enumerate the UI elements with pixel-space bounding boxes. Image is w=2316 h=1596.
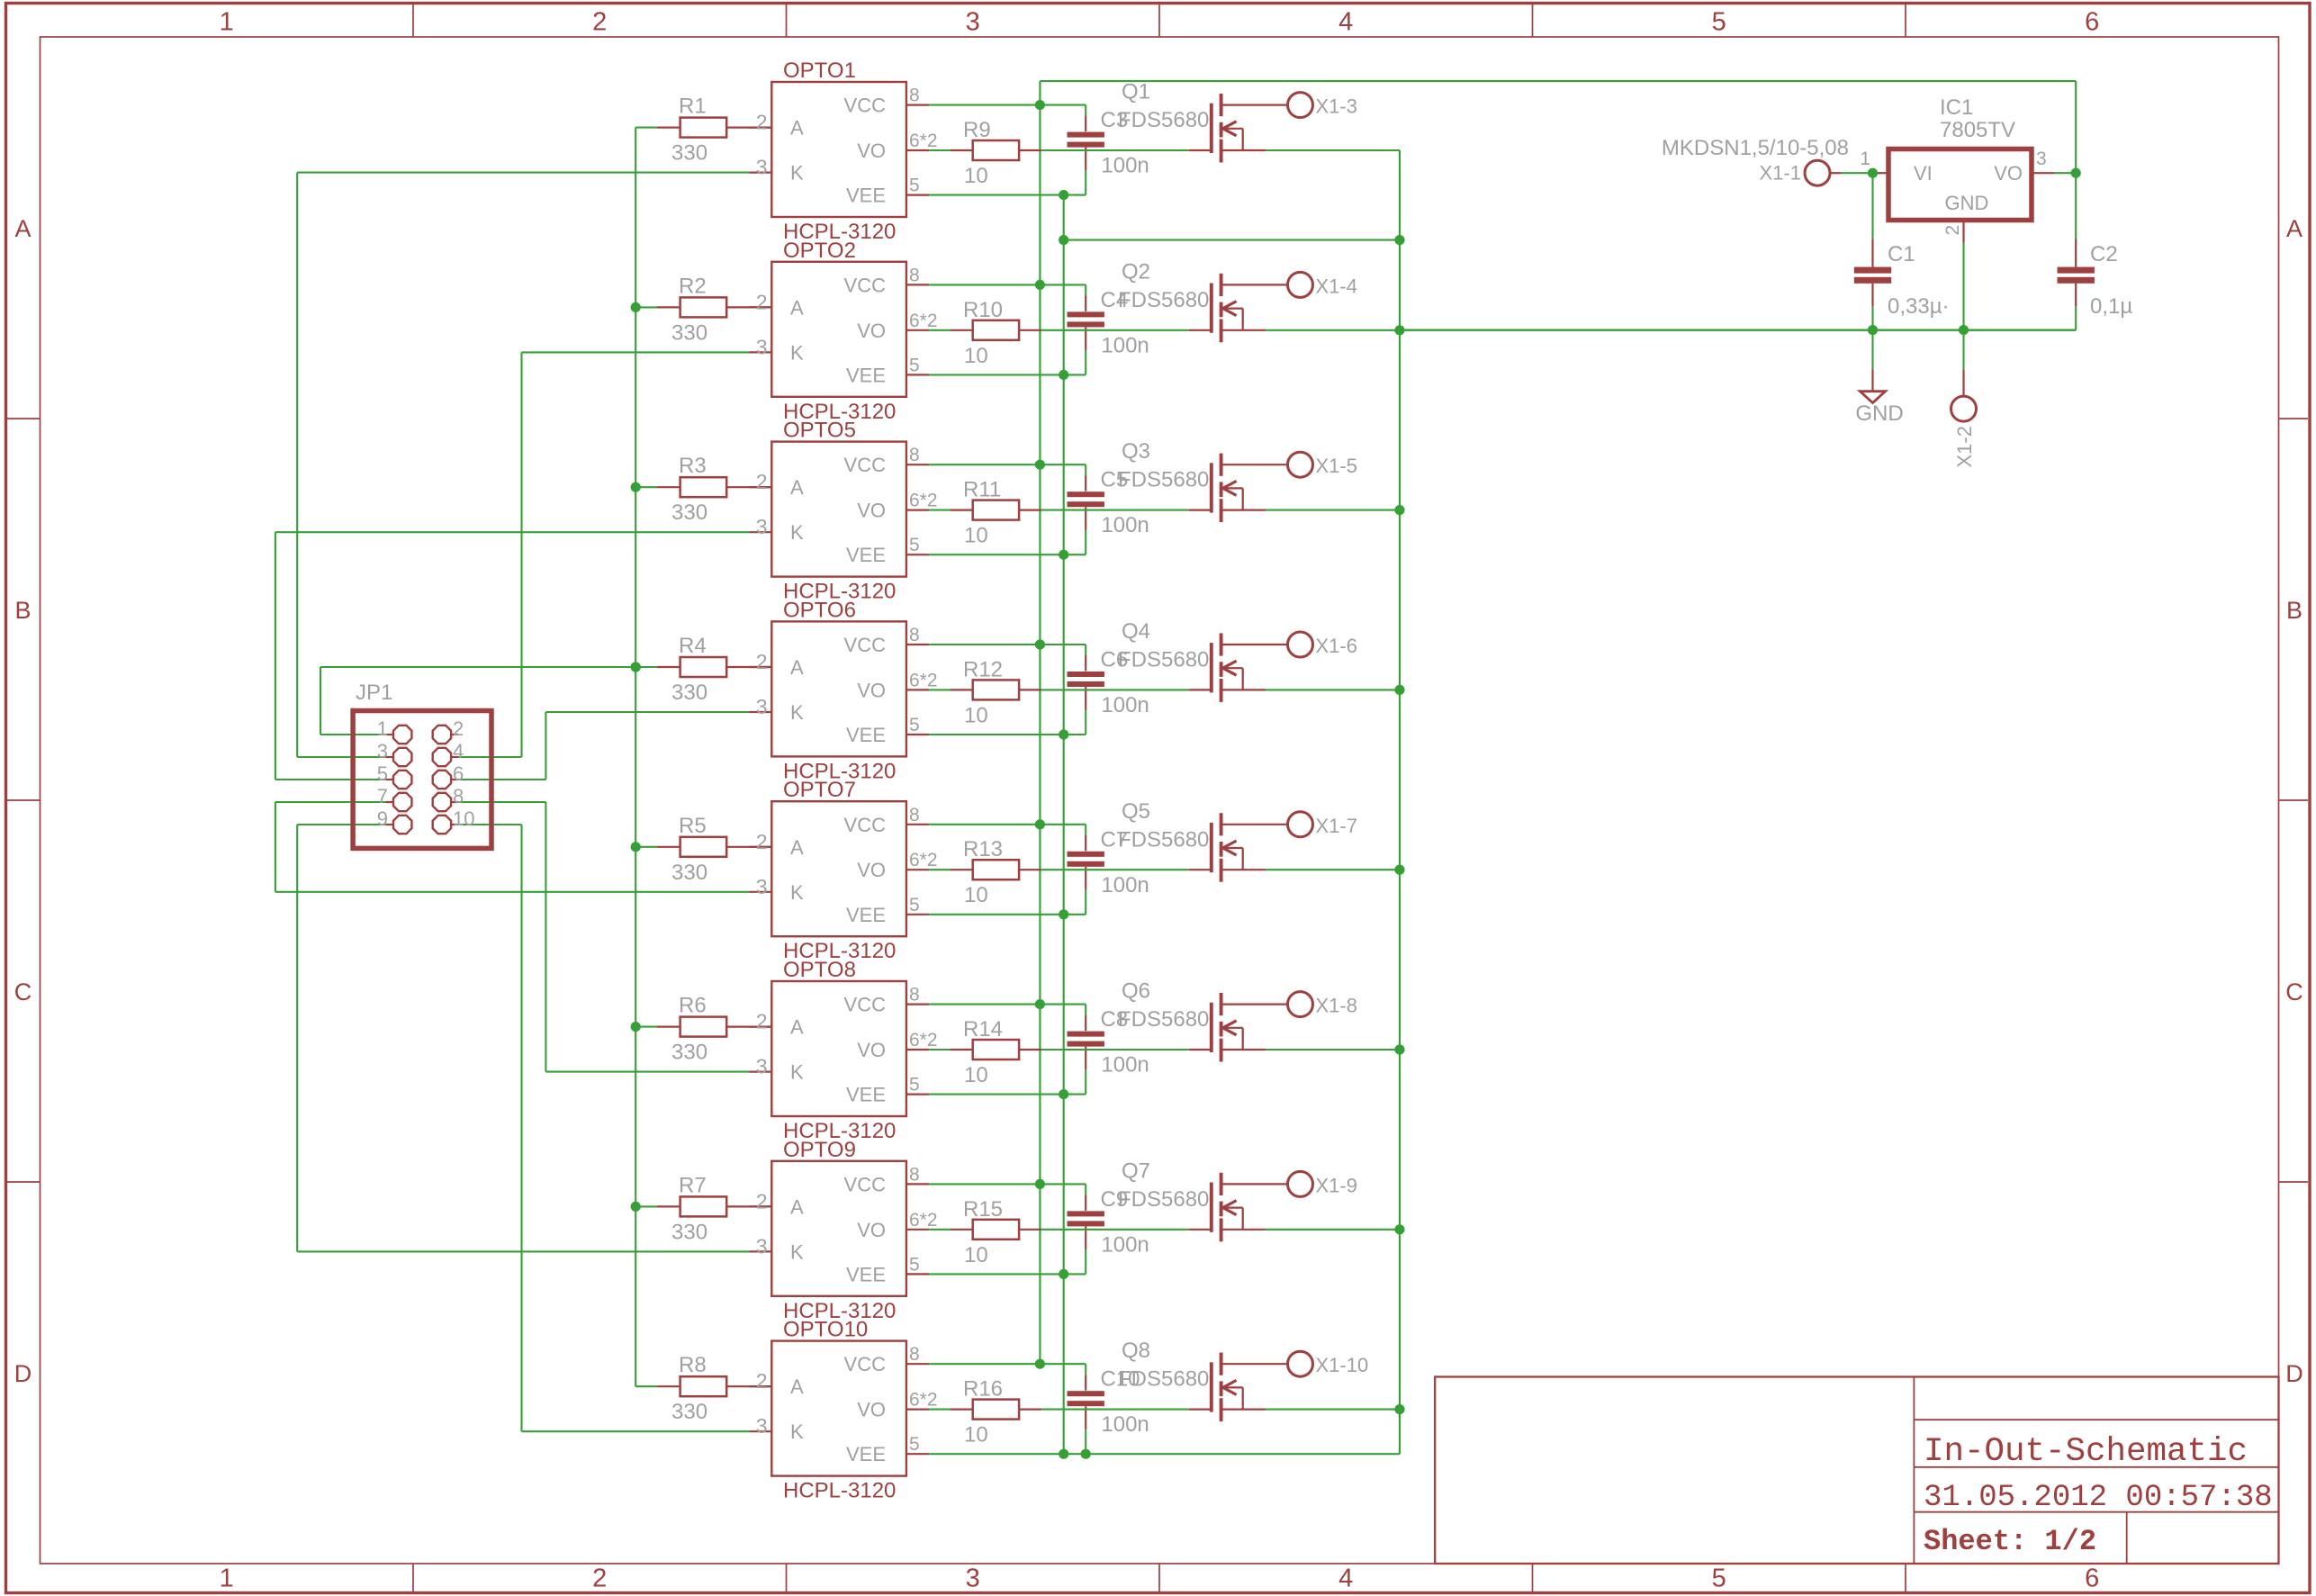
- resistor R14: [951, 1049, 973, 1050]
- wire OPTO2 K net horizontal: [522, 351, 750, 353]
- svg-text:A: A: [790, 1375, 804, 1398]
- resistor R12: [951, 689, 973, 690]
- svg-text:8: 8: [909, 1344, 920, 1365]
- svg-text:5: 5: [377, 762, 388, 785]
- svg-text:VO: VO: [857, 320, 886, 342]
- svg-text:X1-4: X1-4: [1316, 275, 1357, 297]
- svg-text:A: A: [790, 117, 804, 140]
- svg-text:3: 3: [756, 875, 768, 898]
- junction dot C10 at VEE row: [1081, 1449, 1091, 1459]
- svg-text:10: 10: [964, 164, 988, 188]
- svg-text:8: 8: [909, 265, 920, 285]
- svg-text:VO: VO: [857, 859, 886, 881]
- svg-text:A: A: [14, 215, 31, 242]
- svg-text:VCC: VCC: [844, 454, 887, 476]
- wire OPTO2 VCC to bus and C4: [929, 284, 1086, 285]
- svg-text:OPTO6: OPTO6: [783, 598, 856, 622]
- svg-text:R10: R10: [963, 298, 1003, 322]
- svg-text:1: 1: [1860, 149, 1870, 169]
- wire Q7 source to return bus: [1266, 1229, 1400, 1231]
- OPTO6 pin 6 stub: [906, 689, 929, 690]
- wire A-bus tap to R1: [635, 127, 657, 129]
- svg-text:OPTO7: OPTO7: [783, 778, 856, 802]
- ground symbol GND: [1860, 392, 1885, 403]
- capacitor C1 0,33u: [1871, 173, 1873, 239]
- OPTO10 pin 8 stub: [906, 1363, 929, 1365]
- svg-text:8: 8: [909, 625, 920, 645]
- wire OPTO10 VEE row: [929, 1453, 1400, 1455]
- svg-text:VEE: VEE: [846, 364, 886, 386]
- transistor Q7 FDS5680: [1210, 1183, 1213, 1232]
- wire +5V top rail horizontal: [1040, 80, 2076, 82]
- OPTO8 pin 2 stub: [749, 1025, 771, 1027]
- svg-text:3: 3: [2036, 149, 2047, 169]
- svg-text:330: 330: [671, 1220, 707, 1244]
- svg-text:VCC: VCC: [844, 994, 887, 1016]
- JP1 pad 5: [386, 779, 393, 780]
- resistor R5: [657, 846, 680, 848]
- wire OPTO5 K net horizontal: [275, 531, 749, 533]
- JP1 pad 4: [451, 756, 458, 758]
- svg-text:R16: R16: [963, 1377, 1003, 1402]
- wire GND link row1: [1064, 239, 1400, 241]
- voltage regulator IC1 7805TV: [1888, 149, 2032, 221]
- wire +5V A-bus vertical: [635, 128, 636, 1387]
- svg-text:OPTO10: OPTO10: [783, 1318, 868, 1342]
- resistor R4: [657, 666, 680, 668]
- OPTO6 pin 5 stub: [906, 734, 929, 735]
- OPTO5 pin 5 stub: [906, 554, 929, 555]
- svg-text:X1-5: X1-5: [1316, 455, 1357, 477]
- svg-text:A: A: [790, 1195, 804, 1218]
- wire JP1 pin9 to OPTO9 K: [297, 824, 386, 825]
- wire OPTO9 VCC to bus and C9: [929, 1183, 1086, 1185]
- connector pad X1-5: [1288, 452, 1313, 477]
- wire Q2 source to return bus: [1266, 329, 2076, 331]
- svg-text:A: A: [2286, 215, 2302, 242]
- svg-text:10: 10: [964, 703, 988, 727]
- junction dots A-bus: [631, 302, 641, 312]
- OPTO5 pin 3 stub: [749, 531, 771, 533]
- wire OPTO5 VEE row: [929, 554, 1086, 555]
- wire OPTO5 VO to R11: [929, 509, 951, 511]
- wire OPTO7 VO to R13: [929, 869, 951, 870]
- resistor R16: [951, 1408, 973, 1410]
- svg-text:R6: R6: [679, 994, 707, 1018]
- OPTO1 pin 2 stub: [749, 127, 771, 129]
- svg-text:100n: 100n: [1101, 513, 1149, 537]
- svg-text:8: 8: [909, 805, 920, 825]
- svg-text:VEE: VEE: [846, 724, 886, 746]
- svg-text:A: A: [790, 836, 804, 859]
- svg-text:MKDSN1,5/10-5,08: MKDSN1,5/10-5,08: [1662, 136, 1849, 160]
- svg-text:330: 330: [671, 500, 707, 525]
- svg-text:VO: VO: [857, 1399, 886, 1421]
- svg-text:A: A: [790, 296, 804, 319]
- svg-text:VEE: VEE: [846, 904, 886, 926]
- svg-text:330: 330: [671, 861, 707, 885]
- svg-text:9: 9: [377, 807, 388, 830]
- svg-text:Q6: Q6: [1122, 979, 1150, 1004]
- title block row lines: [1914, 1419, 2278, 1420]
- IC1 pin 1 stub: [1874, 172, 1888, 174]
- wire IC1 GND to rail: [1962, 243, 1964, 330]
- optocoupler OPTO5 HCPL-3120: [771, 442, 906, 577]
- svg-text:OPTO9: OPTO9: [783, 1138, 856, 1162]
- wire OPTO10 K net horizontal: [522, 1430, 750, 1432]
- svg-text:330: 330: [671, 141, 707, 166]
- wire OPTO9 VO to R15: [929, 1229, 951, 1231]
- wire R10 to Q2 gate: [1041, 329, 1189, 331]
- svg-text:2: 2: [756, 111, 768, 134]
- svg-text:FDS5680: FDS5680: [1118, 108, 1209, 132]
- svg-text:2: 2: [592, 1564, 607, 1593]
- svg-text:A: A: [790, 1016, 804, 1039]
- OPTO9 pin 5 stub: [906, 1273, 929, 1275]
- IC1 pin 3 stub: [2032, 172, 2054, 174]
- svg-text:0,1µ: 0,1µ: [2090, 294, 2132, 319]
- svg-text:2: 2: [756, 650, 768, 673]
- frame row ticks: [7, 418, 41, 419]
- wire R15 to Q7 gate: [1041, 1229, 1189, 1231]
- svg-text:R3: R3: [679, 454, 707, 478]
- svg-text:5: 5: [909, 715, 920, 735]
- svg-text:5: 5: [909, 535, 920, 555]
- wire +5V rail drop to VO node: [2075, 81, 2077, 173]
- title block field divider vertical: [1913, 1377, 1915, 1564]
- JP1 pad 2: [451, 734, 458, 735]
- connector pad X1-6: [1288, 632, 1313, 657]
- svg-text:VO: VO: [857, 140, 886, 162]
- svg-text:FDS5680: FDS5680: [1118, 1367, 1209, 1392]
- svg-text:VO: VO: [857, 1219, 886, 1241]
- title block sheet cell divider: [2126, 1512, 2128, 1564]
- svg-text:10: 10: [964, 1423, 988, 1447]
- svg-text:C2: C2: [2090, 242, 2118, 266]
- connector pad X1-2: [1951, 396, 1977, 421]
- OPTO10 pin 5 stub: [906, 1453, 929, 1455]
- svg-text:4: 4: [453, 740, 464, 762]
- svg-text:Sheet: 1/2: Sheet: 1/2: [1924, 1525, 2096, 1558]
- svg-text:A: A: [790, 656, 804, 679]
- svg-text:D: D: [14, 1360, 32, 1387]
- svg-text:VCC: VCC: [844, 634, 887, 656]
- svg-text:FDS5680: FDS5680: [1118, 1007, 1209, 1032]
- wire OPTO8 K net horizontal: [545, 1071, 749, 1073]
- svg-text:6: 6: [2085, 1564, 2099, 1593]
- connector pad X1-8: [1288, 992, 1313, 1017]
- OPTO7 pin 5 stub: [906, 914, 929, 915]
- svg-text:2: 2: [756, 470, 768, 493]
- svg-text:3: 3: [377, 740, 388, 762]
- svg-text:100n: 100n: [1101, 1053, 1149, 1078]
- resistor R15: [951, 1229, 973, 1231]
- svg-text:2: 2: [1942, 225, 1963, 236]
- svg-text:R5: R5: [679, 814, 707, 838]
- OPTO2 pin 5 stub: [906, 374, 929, 375]
- optocoupler OPTO9 HCPL-3120: [771, 1161, 906, 1296]
- connector pad X1-4: [1288, 272, 1313, 297]
- wire OPTO9 VEE row: [929, 1273, 1086, 1275]
- svg-text:1: 1: [220, 8, 234, 37]
- svg-text:3: 3: [756, 695, 768, 718]
- svg-text:6*2: 6*2: [909, 311, 938, 331]
- resistor R9: [951, 149, 973, 151]
- optocoupler OPTO1 HCPL-3120: [771, 82, 906, 217]
- svg-text:FDS5680: FDS5680: [1118, 1187, 1209, 1212]
- wire OPTO10 VO to R16: [929, 1409, 951, 1411]
- svg-text:R15: R15: [963, 1197, 1003, 1222]
- OPTO9 pin 6 stub: [906, 1229, 929, 1231]
- capacitor C10 100n: [1085, 1364, 1086, 1375]
- OPTO2 pin 3 stub: [749, 351, 771, 353]
- wire A-bus tap to R6: [635, 1026, 657, 1028]
- transistor Q6 FDS5680: [1210, 1003, 1213, 1052]
- svg-text:OPTO1: OPTO1: [783, 59, 856, 83]
- svg-text:5: 5: [1712, 1564, 1726, 1593]
- wire OPTO7 VCC to bus and C7: [929, 824, 1086, 825]
- OPTO5 pin 6 stub: [906, 509, 929, 510]
- wire OPTO6 VO to R12: [929, 689, 951, 690]
- transistor Q4 FDS5680: [1210, 643, 1213, 692]
- resistor R1: [657, 127, 680, 129]
- svg-text:VCC: VCC: [844, 274, 887, 296]
- wire Q3 source to return bus: [1266, 509, 1400, 511]
- resistor R11: [951, 509, 973, 510]
- OPTO1 pin 3 stub: [749, 172, 771, 174]
- OPTO7 pin 8 stub: [906, 824, 929, 825]
- svg-text:4: 4: [1338, 8, 1353, 37]
- junction dots GND bus: [1059, 190, 1068, 200]
- svg-text:VO: VO: [857, 500, 886, 522]
- svg-text:IC1: IC1: [1940, 95, 1973, 120]
- resistor R8: [657, 1385, 680, 1387]
- svg-text:In-Out-Schematic: In-Out-Schematic: [1924, 1433, 2248, 1471]
- svg-text:8: 8: [909, 445, 920, 465]
- svg-text:6*2: 6*2: [909, 1210, 938, 1231]
- svg-text:VCC: VCC: [844, 1353, 887, 1375]
- svg-text:10: 10: [964, 344, 988, 368]
- OPTO2 pin 8 stub: [906, 284, 929, 285]
- svg-text:3: 3: [966, 8, 980, 37]
- wire OPTO8 VCC to bus and C8: [929, 1004, 1086, 1005]
- svg-text:Q2: Q2: [1122, 259, 1150, 284]
- svg-text:10: 10: [453, 807, 474, 830]
- svg-text:100n: 100n: [1101, 1412, 1149, 1437]
- svg-text:X1-2: X1-2: [1953, 426, 1976, 467]
- svg-text:2: 2: [756, 1189, 768, 1213]
- connector JP1: [353, 711, 491, 849]
- svg-text:VO: VO: [857, 1039, 886, 1061]
- svg-text:K: K: [790, 881, 804, 904]
- svg-text:8: 8: [909, 1164, 920, 1185]
- junction dots VCC bus: [1035, 100, 1045, 110]
- svg-text:K: K: [790, 1061, 804, 1084]
- wire OPTO7 K net horizontal: [275, 891, 749, 893]
- svg-text:FDS5680: FDS5680: [1118, 288, 1209, 312]
- svg-text:A: A: [790, 476, 804, 499]
- svg-text:Q4: Q4: [1122, 619, 1150, 644]
- wire OPTO1 K to JP1 pin3: [296, 173, 298, 757]
- wire X1-2 drop: [1962, 330, 1964, 370]
- OPTO8 pin 8 stub: [906, 1003, 929, 1005]
- wire R9 to Q1 gate: [1041, 149, 1189, 151]
- svg-text:K: K: [790, 1420, 804, 1443]
- svg-text:VCC: VCC: [844, 95, 887, 117]
- OPTO6 pin 3 stub: [749, 711, 771, 713]
- transistor Q5 FDS5680: [1210, 823, 1213, 872]
- OPTO7 pin 2 stub: [749, 846, 771, 848]
- wire OPTO2 VO to R10: [929, 329, 951, 331]
- wire OPTO1 VCC to bus and C3: [929, 104, 1086, 106]
- OPTO10 pin 2 stub: [749, 1385, 771, 1387]
- wire OPTO7 VEE row: [929, 914, 1086, 915]
- OPTO9 pin 2 stub: [749, 1205, 771, 1207]
- svg-text:VO: VO: [1994, 162, 2023, 185]
- transistor Q2 FDS5680: [1210, 284, 1213, 333]
- svg-text:R9: R9: [963, 118, 991, 142]
- wire R13 to Q5 gate: [1041, 869, 1189, 870]
- wire GND symbol drop: [1871, 330, 1873, 370]
- svg-text:1: 1: [220, 1564, 234, 1593]
- optocoupler OPTO10 HCPL-3120: [771, 1341, 906, 1476]
- svg-text:VI: VI: [1914, 162, 1933, 185]
- svg-text:10: 10: [964, 1243, 988, 1267]
- capacitor C2 0,1u: [2075, 173, 2077, 239]
- capacitor C6 100n: [1085, 645, 1086, 655]
- svg-text:X1-7: X1-7: [1316, 815, 1357, 837]
- connector pad X1-3: [1288, 93, 1313, 118]
- svg-text:HCPL-3120: HCPL-3120: [783, 1479, 896, 1503]
- svg-text:Q1: Q1: [1122, 80, 1150, 104]
- svg-text:330: 330: [671, 320, 707, 345]
- svg-text:5: 5: [909, 355, 920, 375]
- svg-text:GND: GND: [1855, 401, 1903, 426]
- svg-text:R4: R4: [679, 634, 707, 658]
- svg-text:D: D: [2285, 1360, 2303, 1387]
- OPTO8 pin 3 stub: [749, 1070, 771, 1072]
- wire A-bus tap to R7: [635, 1205, 657, 1207]
- svg-text:7: 7: [377, 785, 388, 807]
- svg-text:Q3: Q3: [1122, 439, 1150, 464]
- OPTO9 pin 3 stub: [749, 1250, 771, 1252]
- svg-text:1: 1: [377, 717, 388, 740]
- optocoupler OPTO6 HCPL-3120: [771, 621, 906, 756]
- svg-text:330: 330: [671, 1400, 707, 1424]
- resistor R7: [657, 1205, 680, 1207]
- svg-text:2: 2: [756, 1369, 768, 1393]
- svg-text:X1-10: X1-10: [1316, 1354, 1369, 1376]
- wire OPTO8 VEE row: [929, 1094, 1086, 1096]
- resistor R3: [657, 486, 680, 488]
- svg-text:330: 330: [671, 1041, 707, 1065]
- svg-text:100n: 100n: [1101, 333, 1149, 357]
- svg-text:VEE: VEE: [846, 1443, 886, 1465]
- transistor Q3 FDS5680: [1210, 463, 1213, 512]
- svg-text:5: 5: [909, 176, 920, 196]
- wire A-bus tap to R4: [635, 666, 657, 668]
- svg-text:8: 8: [909, 86, 920, 106]
- wire Q8 source to return bus: [1266, 1409, 1400, 1411]
- connector pad X1-7: [1288, 812, 1313, 837]
- connector pad X1-10: [1288, 1351, 1313, 1376]
- JP1 pad 10: [451, 824, 458, 825]
- wire OPTO1 VEE row: [929, 194, 1086, 196]
- OPTO10 pin 3 stub: [749, 1430, 771, 1432]
- svg-text:B: B: [14, 597, 31, 624]
- JP1 pad 3: [386, 756, 393, 758]
- svg-text:K: K: [790, 701, 804, 724]
- svg-text:VEE: VEE: [846, 1084, 886, 1106]
- svg-text:K: K: [790, 341, 804, 364]
- resistor R2: [657, 306, 680, 308]
- svg-text:VEE: VEE: [846, 544, 886, 566]
- frame column ticks: [412, 5, 414, 37]
- svg-text:3: 3: [756, 515, 768, 538]
- svg-text:6*2: 6*2: [909, 1030, 938, 1050]
- OPTO7 pin 6 stub: [906, 869, 929, 870]
- svg-text:6*2: 6*2: [909, 1390, 938, 1411]
- svg-text:X1-9: X1-9: [1316, 1174, 1357, 1196]
- wire A-bus tap to R8: [635, 1385, 657, 1387]
- wire A-bus tap to R3: [635, 486, 657, 488]
- svg-text:R11: R11: [963, 478, 1001, 502]
- wire OPTO6 VEE row: [929, 734, 1086, 735]
- svg-text:X1-6: X1-6: [1316, 635, 1357, 657]
- wire R11 to Q3 gate: [1041, 509, 1189, 511]
- svg-text:R13: R13: [963, 837, 1003, 861]
- svg-text:C: C: [14, 978, 32, 1005]
- svg-text:VCC: VCC: [844, 814, 887, 836]
- svg-text:6*2: 6*2: [909, 850, 938, 870]
- svg-text:VCC: VCC: [844, 1173, 887, 1195]
- wire JP1 pin10 to OPTO10 K: [458, 824, 522, 825]
- svg-text:R1: R1: [679, 95, 707, 119]
- wire JP1 pin7 to OPTO7 K: [275, 801, 386, 803]
- wire OPTO1 K net horizontal: [297, 172, 749, 174]
- svg-text:FDS5680: FDS5680: [1118, 827, 1209, 852]
- svg-text:2: 2: [592, 8, 607, 37]
- svg-text:OPTO5: OPTO5: [783, 419, 856, 443]
- svg-text:2: 2: [756, 290, 768, 313]
- svg-text:5: 5: [909, 1434, 920, 1455]
- OPTO7 pin 3 stub: [749, 891, 771, 893]
- svg-text:8: 8: [909, 985, 920, 1005]
- svg-text:R7: R7: [679, 1173, 707, 1197]
- svg-text:0,33µ·: 0,33µ·: [1888, 294, 1950, 319]
- svg-text:R12: R12: [963, 657, 1003, 681]
- svg-text:6*2: 6*2: [909, 491, 938, 511]
- svg-text:5: 5: [1712, 8, 1726, 37]
- optocoupler OPTO8 HCPL-3120: [771, 981, 906, 1116]
- svg-text:OPTO8: OPTO8: [783, 958, 856, 982]
- svg-text:3: 3: [756, 1055, 768, 1078]
- svg-text:6: 6: [2085, 8, 2099, 37]
- svg-text:X1-8: X1-8: [1316, 995, 1357, 1017]
- wire OPTO5 K to JP1 pin5: [275, 532, 276, 780]
- junction dots source-return vertical: [1394, 235, 1404, 245]
- svg-text:6*2: 6*2: [909, 670, 938, 690]
- JP1 pad 9: [386, 824, 393, 825]
- wire Q5 source to return bus: [1266, 869, 1400, 870]
- svg-text:100n: 100n: [1101, 1232, 1149, 1257]
- wire JP1 pin8 to OPTO8 K: [458, 801, 545, 803]
- svg-text:C: C: [2285, 978, 2303, 1005]
- wire IC1 VO to +5V node: [2054, 172, 2076, 174]
- transistor Q8 FDS5680: [1210, 1362, 1213, 1411]
- wire Q1 source to return bus: [1266, 149, 1400, 151]
- svg-text:FDS5680: FDS5680: [1118, 468, 1209, 492]
